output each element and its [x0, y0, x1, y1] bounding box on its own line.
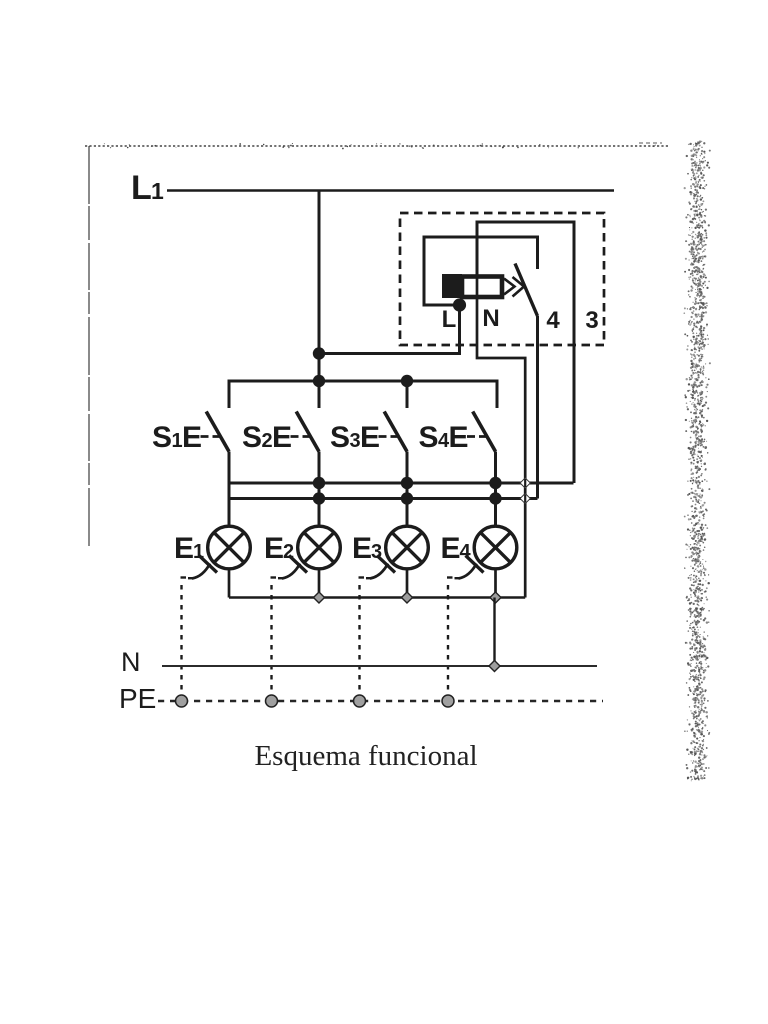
PE dashed drop E3	[359, 578, 371, 700]
junction dot L1-drop / L-feed	[313, 347, 325, 359]
label S2 with actuator	[242, 421, 292, 454]
relay coil body	[462, 277, 502, 298]
PE junction marker x=359.5	[354, 695, 366, 707]
push-button switch S2 blade	[296, 412, 319, 452]
svg-text:N: N	[482, 305, 499, 332]
svg-text:1: 1	[172, 430, 183, 452]
PE line (dashed)	[158, 700, 603, 702]
svg-text:1: 1	[151, 178, 164, 204]
svg-text:S: S	[152, 421, 172, 454]
lamp E3 bottom wire	[406, 569, 409, 598]
svg-text:PE: PE	[119, 683, 156, 714]
PE junction marker x=181.5	[176, 695, 188, 707]
junction dot lamp bus x=407	[401, 492, 413, 504]
junction diamond return bus x=319	[313, 592, 324, 603]
label S1 with actuator	[152, 421, 202, 454]
svg-text:N: N	[121, 647, 141, 677]
actuator dashed link S4	[467, 435, 488, 438]
svg-text:E: E	[272, 421, 292, 454]
lamp E4	[474, 526, 517, 569]
crossing hop marker upper	[520, 478, 530, 488]
wire coil top to terminal 3 and pushbutton bus	[477, 222, 574, 483]
PE dashed drop E1	[181, 578, 193, 700]
mechanical link arrow	[504, 277, 524, 297]
actuator dashed link S1	[201, 435, 222, 438]
wire S1 output down through buses to lamp E1	[228, 452, 231, 528]
wire S3 output down through buses to lamp E3	[406, 452, 409, 528]
PE dashed drop E2	[271, 578, 283, 700]
svg-text:E: E	[174, 532, 194, 565]
junction diamond return bus x=407	[401, 592, 412, 603]
impulse relay enclosure (dashed)	[400, 213, 604, 345]
junction diamond on N	[489, 660, 500, 671]
net label L1	[131, 169, 164, 207]
svg-text:E: E	[352, 532, 372, 565]
push-button switch S3 blade	[384, 412, 407, 452]
lamp feed bus	[229, 497, 538, 500]
lamp E2 bottom wire	[318, 569, 321, 598]
svg-text:L: L	[442, 306, 457, 333]
label E1	[174, 532, 204, 565]
actuator dashed link S3	[379, 435, 400, 438]
PE pigtail tick E2	[289, 556, 307, 573]
crossing hop marker lower	[520, 493, 530, 503]
wire S4 output down through buses to lamp E4	[494, 452, 497, 528]
svg-text:2: 2	[262, 430, 273, 452]
svg-text:3: 3	[350, 430, 361, 452]
push-button switch S1 blade	[206, 412, 229, 452]
svg-text:3: 3	[585, 307, 598, 334]
relay coil (filled element)	[442, 274, 462, 298]
PE pigtail hook E2	[282, 564, 300, 579]
junction dot lamp bus x=495.5	[489, 492, 501, 504]
svg-text:E: E	[360, 421, 380, 454]
svg-text:S: S	[330, 421, 350, 454]
junction dot relay terminal L	[453, 298, 466, 311]
lamp E1 bottom wire	[228, 569, 231, 598]
wire relay terminal L to L1 drop	[319, 305, 460, 354]
label E2	[264, 532, 294, 565]
lamp E2	[298, 526, 341, 569]
PE junction marker x=448.0	[442, 695, 454, 707]
PE pigtail hook E1	[192, 564, 210, 579]
svg-text:Esquema funcional: Esquema funcional	[254, 740, 477, 772]
wire L1 drop to switch bus and S2 contact	[318, 191, 321, 409]
junction dot lamp bus x=319	[313, 492, 325, 504]
wire relay contact to terminal 4 and lamp bus	[536, 316, 539, 499]
wire S3 top terminal	[406, 381, 409, 408]
switch supply bus with end drops	[229, 381, 497, 408]
lamp E3	[386, 526, 429, 569]
PE dashed drop E4	[447, 578, 459, 700]
switch output bus	[229, 482, 574, 485]
lamp E1	[208, 526, 251, 569]
svg-text:L: L	[131, 169, 152, 207]
svg-text:E: E	[441, 532, 461, 565]
label E4	[441, 532, 472, 565]
label E3	[352, 532, 382, 565]
svg-text:S: S	[419, 421, 439, 454]
lamp return bus	[229, 596, 525, 599]
actuator dashed link S2	[291, 435, 312, 438]
label S4 with actuator	[419, 421, 469, 454]
svg-text:S: S	[242, 421, 262, 454]
push-button switch S4 blade	[473, 412, 496, 452]
junction dot bus / S3 feed	[401, 375, 413, 387]
svg-text:4: 4	[546, 307, 560, 334]
wire coil bottom terminal N to lamp return bus	[477, 277, 525, 598]
PE pigtail tick E1	[199, 556, 217, 573]
junction dot L1-drop / switch bus	[313, 375, 325, 387]
wire S2 output down through buses to lamp E2	[318, 452, 321, 528]
N line	[162, 665, 597, 667]
junction dot output bus x=319	[313, 477, 325, 489]
wire internal: terminal L to fixed contact	[424, 237, 538, 305]
PE junction marker x=271.5	[266, 695, 278, 707]
svg-text:E: E	[449, 421, 469, 454]
label S3 with actuator	[330, 421, 380, 454]
wire L1 line	[167, 189, 614, 192]
relay contact blade	[515, 264, 538, 317]
PE pigtail tick E4	[466, 556, 484, 573]
lamp E4 bottom wire	[494, 569, 497, 598]
wire return bus to N	[493, 598, 495, 667]
svg-text:E: E	[264, 532, 284, 565]
PE pigtail tick E3	[377, 556, 395, 573]
junction dot output bus x=407	[401, 477, 413, 489]
junction diamond return bus x=495.5	[490, 592, 501, 603]
PE pigtail hook E4	[459, 564, 477, 579]
PE pigtail hook E3	[370, 564, 388, 579]
junction dot output bus x=495.5	[489, 477, 501, 489]
svg-text:E: E	[182, 421, 202, 454]
